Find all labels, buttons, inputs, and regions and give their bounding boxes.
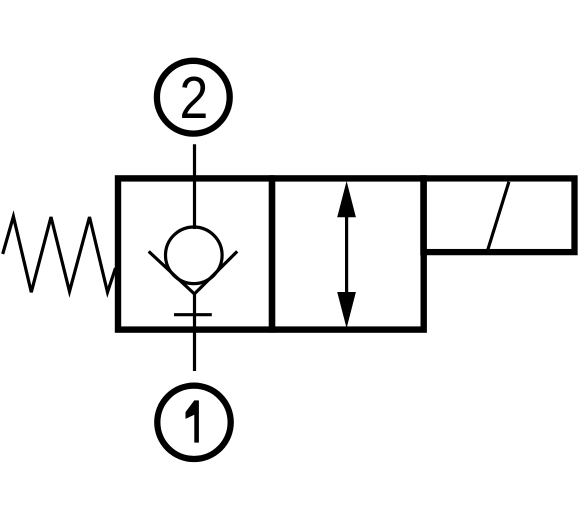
seat tick line xyxy=(174,313,212,316)
actuation arrow shaft xyxy=(345,213,348,295)
check valve seat V xyxy=(149,251,238,294)
spring xyxy=(3,217,116,293)
arrow head down xyxy=(337,292,356,328)
port 1 label xyxy=(186,400,199,442)
valve body box (two squares) xyxy=(118,178,424,329)
divider between left and right squares xyxy=(269,175,276,332)
port 2 circle xyxy=(157,61,230,134)
wire below check valve xyxy=(193,294,196,371)
solenoid diagonal stroke xyxy=(487,182,509,252)
svg-text:2: 2 xyxy=(180,65,209,131)
port 2 label xyxy=(180,65,209,131)
check valve ball xyxy=(166,227,223,284)
arrow head up xyxy=(337,181,356,217)
solenoid box U1 xyxy=(423,178,574,252)
wire from port 2 to valve xyxy=(193,144,196,229)
port 1 circle xyxy=(157,386,230,459)
